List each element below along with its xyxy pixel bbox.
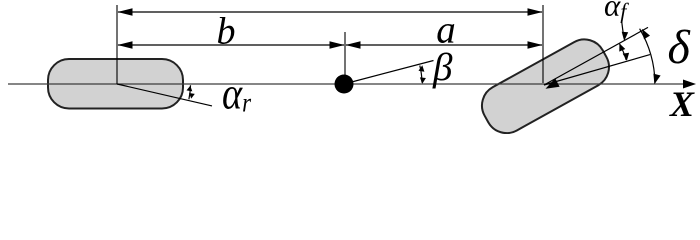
svg-text:β: β: [432, 46, 453, 89]
svg-text:αf: αf: [604, 0, 629, 24]
front wheel: [474, 32, 616, 141]
front slip angle arc alpha_f: [619, 43, 629, 60]
rear wheel: [48, 59, 183, 109]
rear slip line: [117, 84, 212, 106]
svg-text:b: b: [217, 11, 236, 53]
rear axle extension line: [116, 5, 118, 84]
alpha_f leader arrow: [622, 20, 629, 41]
CoG dot: [335, 75, 354, 94]
svg-text:δ: δ: [668, 21, 691, 74]
front wheel axis line: [544, 27, 648, 85]
X axis: [8, 80, 696, 89]
steering angle arc delta: [640, 29, 661, 84]
front velocity line with arrowhead at wheel centre: [544, 55, 650, 89]
dimension b: [118, 41, 345, 49]
front axle extension line: [542, 5, 544, 83]
CoG extension line: [344, 32, 346, 84]
velocity line beta: [344, 61, 434, 85]
wheelbase dimension line: [118, 8, 543, 16]
beta angle arc: [419, 65, 426, 83]
svg-text:X: X: [669, 84, 695, 124]
rear slip angle arc: [187, 85, 195, 99]
svg-text:αr: αr: [222, 70, 251, 120]
dimension a: [346, 41, 543, 49]
